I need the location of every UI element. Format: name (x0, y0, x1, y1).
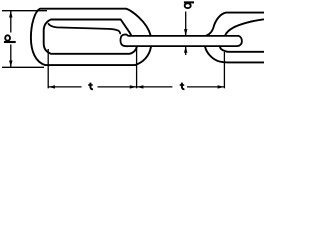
label t2: stem with foot (182, 83, 185, 90)
label t1: crossbar (88, 84, 93, 86)
label d (rotated 90deg CW): stem (4, 41, 16, 43)
dimension t: right extension line (223, 52, 225, 88)
dimension d: bottom extension line (2, 66, 44, 68)
dimension t1: left arrowhead (48, 85, 55, 88)
dimension d: vertical dimension line upper segment (10, 11, 12, 33)
dimension d: upper arrowhead (9, 11, 12, 18)
dimension t2: line left segment (137, 86, 173, 88)
dimension d: vertical dimension line lower segment (10, 45, 12, 68)
label t2: crossbar (180, 84, 185, 86)
middle link (edge-on) bar with rounded end caps, occludes links behind (120, 34, 241, 46)
dimension t2: left arrowhead (137, 85, 144, 88)
dimension t2: right arrowhead (218, 85, 225, 88)
label b (rotated 90deg CW): bowl (185, 3, 191, 8)
right chain link inner hole outline (220, 19, 264, 52)
dimension d: lower arrowhead (9, 61, 12, 68)
dimension t2: line right segment (187, 86, 224, 88)
label d (rotated 90deg CW): bowl (5, 35, 10, 40)
left chain link inner hole outline (44, 20, 137, 54)
dimension t: middle extension line (136, 47, 138, 89)
dimension t: left extension line (47, 49, 49, 88)
dimension d: top extension line (2, 10, 47, 12)
dimension b: arrowhead pointing down at bar top (184, 29, 187, 36)
label b (rotated 90deg CW): stem (184, 1, 194, 3)
dimension b: arrowhead pointing up at bar bottom (184, 46, 187, 53)
left link far-side wire line seen through hole (48, 24, 120, 34)
dimension t1: line left segment (48, 86, 81, 88)
right chain link outer outline (205, 13, 264, 63)
dimension t1: line right segment (98, 86, 137, 88)
dimension t1: right arrowhead (130, 85, 137, 88)
dimension b: vertical line above bar (185, 12, 187, 36)
label t1: stem with foot (90, 83, 93, 90)
dimension b: tail line below bar (185, 46, 187, 55)
left chain link outer outline (31, 9, 151, 65)
